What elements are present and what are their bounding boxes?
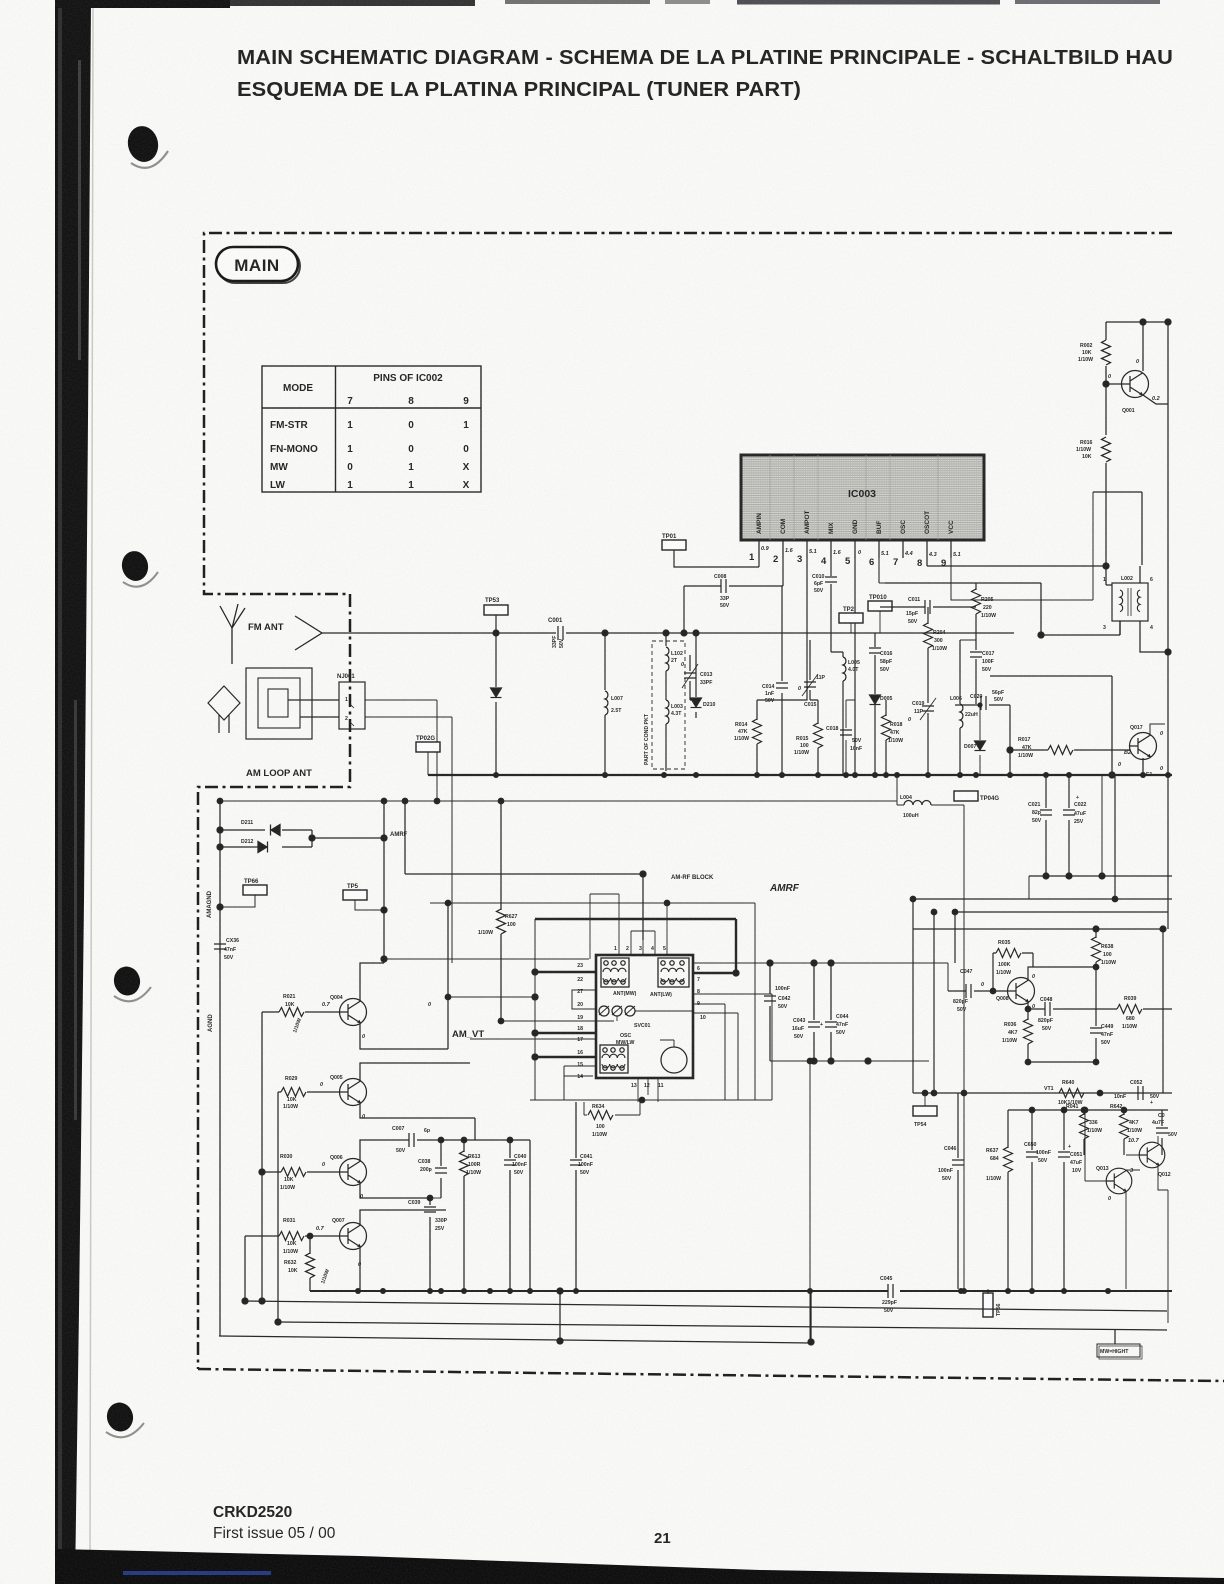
wire pin16 thick: [535, 1056, 596, 1058]
wire emitter row: [448, 996, 535, 998]
Q006 collector to C007 row: [360, 1140, 530, 1161]
test point TP01: [662, 540, 686, 550]
wire Q001 collector: [1142, 322, 1144, 371]
capacitor C044: [830, 963, 832, 1061]
wire TP01 to pin1: [674, 550, 759, 567]
resistor R015: [810, 700, 818, 775]
resistor R637: [1004, 1147, 1013, 1172]
transistor Q012: [1139, 1142, 1165, 1168]
wire pin5 gnd: [854, 558, 856, 775]
capacitor C046: [957, 1093, 959, 1289]
diode D210: [695, 633, 697, 718]
inductor L006: [959, 640, 961, 775]
capacitor C022: [1068, 775, 1070, 876]
resistor R016: [1102, 437, 1111, 462]
transistor Q001: [1122, 371, 1149, 398]
resistor R014: [696, 700, 757, 722]
diode D212: [220, 846, 312, 848]
resistor R039: [1117, 1005, 1142, 1014]
resistor R627: [500, 801, 502, 1021]
wire buf out: [885, 583, 1041, 635]
wire buf row: [960, 637, 976, 640]
inductor L003: [665, 671, 667, 700]
wire down long: [963, 805, 965, 1289]
transformer ANT(MW): [601, 958, 629, 987]
node L002 top: [1103, 563, 1109, 569]
capacitor C053 electrolytic: [1161, 1110, 1163, 1155]
capacitor C017: [970, 652, 982, 657]
IC003 pin stubs: [759, 540, 951, 558]
test point TP04G: [954, 791, 978, 801]
test point TP010: [868, 601, 892, 611]
left base rails: [261, 1012, 263, 1301]
dash-dot board outline: [198, 233, 1224, 1381]
wire main FM bus: [428, 774, 1172, 776]
diode D005: [870, 695, 881, 705]
IC003 pin names: [756, 511, 955, 535]
capacitor C045 in bus: [888, 1284, 900, 1298]
trimmer C013: [690, 655, 696, 700]
resistor R002: [1102, 340, 1111, 365]
wire row y912: [955, 912, 1168, 929]
capacitor CX36: [214, 944, 226, 949]
node on Vcc wire: [1140, 319, 1146, 325]
wire emitter gnd row: [1028, 1061, 1096, 1063]
capacitor C051: [1063, 1110, 1065, 1289]
resistor R640: [1059, 1089, 1084, 1098]
node: [663, 630, 669, 636]
wire top AM row: [220, 800, 897, 802]
wire pin8 to osc coil: [927, 565, 1106, 567]
wire am-rf block row1: [405, 801, 643, 940]
wire emitter riser: [447, 903, 449, 1049]
transformer OSC MW/LW: [616, 1033, 635, 1046]
test point TP66: [243, 885, 267, 895]
test point TP2: [839, 613, 863, 623]
MAIN badge: [218, 249, 300, 283]
bottom pin stubs: [638, 1078, 658, 1102]
wire vcc pin9: [951, 492, 1093, 600]
test point TP54: [913, 1106, 937, 1116]
transistor Q013: [1106, 1168, 1132, 1194]
capacitor C008: [684, 558, 783, 633]
bracket pins 27-20: [572, 990, 596, 1009]
IC003 pin voltages: [761, 546, 961, 558]
FM ANT antenna: [220, 604, 245, 664]
wire NJ001 to AMRF: [365, 700, 452, 963]
AMAGND rail: [219, 799, 221, 953]
diode D211: [220, 829, 312, 831]
trimmer C015: [809, 640, 811, 700]
transistor Q005: [340, 1079, 367, 1106]
wire row y929: [913, 928, 1163, 930]
capacitor C001: [558, 626, 563, 640]
resistor R642: [1123, 1110, 1125, 1155]
wire pin3 down: [757, 558, 807, 700]
wire row y876: [1029, 875, 1172, 877]
wire AMRF node: [312, 801, 384, 963]
capacitor C011: [880, 606, 976, 608]
Q005 collector: [360, 1063, 470, 1081]
wire C04x bottom row: [770, 1060, 929, 1062]
transistor Q017: [1130, 733, 1157, 760]
bottom long wires: [245, 1301, 1167, 1311]
capacitor C041: [575, 1102, 577, 1289]
capacitor C043: [813, 963, 815, 1061]
wire VT1 row: [913, 1092, 1172, 1094]
transistor Q006: [340, 1159, 367, 1186]
wire pin6 row: [693, 963, 948, 991]
tuning gang section: [599, 1006, 609, 1016]
wire x530 drop: [529, 1140, 531, 1289]
page edge line right of strip: [90, 0, 93, 1560]
resistor R205: [975, 583, 977, 650]
top pin stubs: [619, 874, 667, 955]
wire thick feed: [535, 919, 736, 973]
Q004 emitter: [360, 1024, 448, 1049]
test point TP53: [484, 605, 508, 615]
inductor L005: [831, 652, 843, 775]
transformer ANT(LW): [658, 958, 689, 987]
capacitor C650: [1031, 1110, 1033, 1289]
Q005 emitter: [360, 1103, 475, 1140]
resistor R035: [993, 953, 1033, 991]
resistor R021: [279, 1008, 304, 1017]
capacitor C021: [1045, 775, 1047, 876]
test point TP02G: [416, 742, 440, 752]
wire pin23 feed: [384, 958, 589, 960]
wire right rail: [1167, 322, 1169, 775]
resistor R041: [1083, 1110, 1085, 1155]
IC003 pin numbers: [749, 552, 946, 569]
scanner black top strip segments: [55, 0, 230, 8]
capacitor C020: [955, 705, 1010, 775]
wire row y1110: [1008, 1109, 1168, 1111]
capacitor C016: [874, 633, 876, 694]
resistor R638: [1095, 929, 1097, 967]
SCHEMATIC-CORE: [428, 319, 1172, 778]
wire pin17: [470, 1038, 596, 1040]
right pin labels: [697, 966, 706, 1021]
wire FM antenna line: [322, 632, 1014, 634]
wire am-rf block row2: [430, 903, 755, 1100]
left pin ticks: [577, 963, 583, 1080]
capacitor C449: [1095, 967, 1097, 1062]
Q007 emitter: [359, 1248, 361, 1291]
wire osc tank: [1041, 621, 1120, 635]
wire tune line pin19: [501, 1020, 614, 1022]
resistor R632: [309, 1236, 311, 1291]
punch hole 1: [125, 123, 162, 164]
Q013 emitter: [1125, 1192, 1127, 1289]
wire pin15: [564, 1066, 596, 1100]
wire row y899: [913, 898, 1172, 900]
capacitor C007: [409, 1133, 414, 1147]
capacitor C014: [781, 586, 783, 775]
wire L004 row: [897, 775, 954, 805]
MW=HIGH label box: [1114, 1329, 1116, 1344]
riser x1008: [1007, 1110, 1009, 1289]
Q004 collector: [360, 963, 384, 1001]
resistor R613: [463, 1140, 465, 1289]
transistor Q008: [1008, 978, 1035, 1005]
resistor R018: [885, 700, 887, 775]
trimmer circle: [661, 1047, 687, 1073]
capacitor C039: [429, 1198, 431, 1289]
right side wires: [693, 994, 772, 1100]
test point TP56: [983, 1293, 993, 1317]
IC003 body: [741, 455, 984, 540]
node: [602, 630, 608, 636]
transformer L002: [1106, 566, 1168, 652]
Q008 emitter: [1028, 1003, 1172, 1009]
capacitor C038: [440, 1140, 442, 1198]
punch hole 3: [111, 964, 142, 998]
inductor L102: [665, 633, 667, 646]
punch hole 2: [119, 549, 151, 584]
capacitor C047: [948, 990, 1007, 992]
capacitor C040: [509, 1140, 511, 1289]
wire pin22 thick: [535, 971, 596, 973]
capacitor C042: [769, 963, 771, 1061]
resistor R029: [281, 1088, 306, 1097]
antenna feed chevron: [295, 616, 322, 650]
wire pin18 thick: [535, 1032, 596, 1034]
transistor Q004: [340, 999, 367, 1026]
resistor R030: [281, 1168, 306, 1177]
resistor R036: [1027, 1009, 1029, 1062]
wire feed to bus: [990, 676, 1112, 775]
capacitor C018: [846, 700, 855, 775]
node: [693, 630, 699, 636]
R017 base resistor: [1048, 746, 1073, 755]
Q008 collector: [1028, 967, 1096, 980]
connector NJ001: [339, 682, 365, 729]
resistor R204: [927, 607, 929, 703]
transistor Q007: [340, 1223, 367, 1250]
wire pin14: [564, 1075, 593, 1077]
test point TP5: [343, 890, 367, 900]
capacitor C048: [1045, 1002, 1050, 1016]
scanner black left edge strip: [55, 0, 91, 1584]
trimmer C019: [922, 706, 934, 711]
AM loop antenna: [246, 668, 312, 739]
Q006 emitter: [360, 1184, 430, 1198]
ground bus bottom: [310, 1290, 1172, 1292]
dashed package box: [652, 641, 685, 769]
diode D007: [980, 705, 981, 775]
capacitor C052: [1138, 1086, 1143, 1100]
inductor L007: [604, 633, 606, 775]
punch hole 4: [104, 1400, 135, 1434]
diode D002: [495, 633, 497, 775]
scanner black bottom wedge: [55, 1549, 1224, 1584]
AM loop diamond: [208, 686, 240, 733]
left rail x535: [534, 919, 536, 1100]
mode table: [262, 366, 481, 492]
vertical risers: [913, 899, 1163, 1093]
capacitor C010: [830, 558, 832, 652]
Q007 collector: [360, 1210, 446, 1225]
wire Vcc top right: [1106, 321, 1171, 323]
resistor R031: [279, 1232, 304, 1241]
resistor R634: [589, 1102, 591, 1140]
AM-RF tuning block SVC01: [596, 955, 693, 1078]
